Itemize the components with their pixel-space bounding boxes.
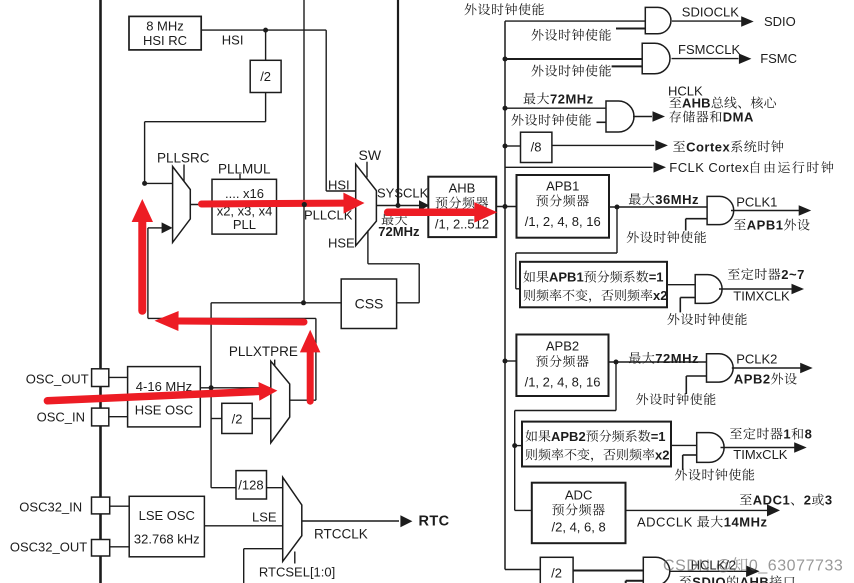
arrow into AHB prescaler [419,200,430,211]
svg-text:/2: /2 [232,412,243,427]
label peripheral clock enable 8 [675,469,687,481]
wire enable into SDIO gate [616,28,645,30]
node FSMC branch [503,57,508,62]
wire FCLK [505,166,653,168]
AND gate TIMxCLK [697,433,724,463]
arrow to FSMC [739,54,752,65]
label to ADC123 [740,494,752,505]
svg-text:LSE: LSE [252,510,277,525]
svg-text:x2: x2 [655,447,669,462]
arrow to SDIO [741,16,754,27]
svg-text:RTC: RTC [419,514,450,530]
svg-text:OSC32_OUT: OSC32_OUT [10,540,87,555]
AND gate PCLK2 [707,354,734,382]
wire enable into PCLK2 gate [686,375,706,377]
svg-text:SYSCLK: SYSCLK [377,186,429,201]
svg-text:.... x16: .... x16 [225,186,264,201]
tick PLLMUL label [239,174,241,179]
wire PLLXTPRE out to PLLSRC [290,399,316,401]
label peripheral clock enable 1 [465,3,477,15]
wire HSI from HSI RC [201,29,326,31]
label peripheral clock enable 2 [532,29,544,41]
mux PLLSRC [173,167,191,243]
node APB2 out junction [614,360,619,365]
svg-text:LSE OSC: LSE OSC [139,508,195,523]
node MCO tap on PLLCLK wire [302,202,307,207]
svg-text:/2: /2 [551,566,562,581]
svg-text:Cortex: Cortex [686,139,730,154]
svg-text:HSI: HSI [328,178,350,193]
AND gate TIMXCLK [695,275,722,304]
arrow Cortex system timer [655,140,668,151]
label max 72MHz APB2 [629,352,641,364]
wire enable into PCLK1 gate [686,218,707,220]
mux RTCSEL [283,477,302,561]
svg-text:APB1: APB1 [549,270,584,285]
box if APB2 prescaler =1 [522,422,671,467]
svg-text:32.768 kHz: 32.768 kHz [134,532,200,547]
red arrow SYSCLK to AHB [388,209,475,217]
svg-text:TIMXCLK: TIMXCLK [733,289,790,304]
svg-text:PLL: PLL [233,217,256,232]
red arrow HSE to PLLXTPRE [47,391,259,400]
node SYSCLK junction [396,203,401,208]
label to SDIO AHB interface [679,576,691,583]
wire OSC32_OUT to LSE OSC [110,546,130,548]
arrow PCLK2 [800,363,813,373]
arrow to RTC [400,515,412,527]
svg-text:APB1: APB1 [747,218,784,233]
svg-text:OSC32_IN: OSC32_IN [19,500,82,515]
tick SW label [366,162,368,178]
node HSE junction [209,385,214,390]
tick PLLSRC label [183,165,185,182]
wire HSE vertical [210,303,212,488]
svg-text:1: 1 [783,427,791,442]
wire PLLCLK to SW mux [277,203,356,205]
label peripheral clock enable 6 [667,313,679,325]
svg-text:FSMC: FSMC [760,51,797,66]
svg-text:x2: x2 [653,288,667,303]
label max 72MHz HCLK [524,93,536,105]
wire into ADC prescaler [515,509,532,511]
box 8 MHz HSI RC [129,16,201,50]
wire /128 to RTCSEL [267,487,283,489]
wire PLLSRC out [190,204,212,206]
label max 36MHz [629,193,641,205]
wire to /8 [505,145,521,147]
wire AHB out [496,206,516,208]
node /8 branch [503,144,508,149]
wire into PLLSRC input 0 [145,182,173,184]
svg-text:AHB: AHB [682,96,711,111]
node HSI junction [263,28,268,33]
wire into APB2 [505,360,516,362]
wire /2 to SDIO AHB gate [573,570,643,572]
node HCLK junction [503,204,508,209]
wire to TIMxCLK gate [671,444,697,446]
wire /2 to PLLXTPRE [252,418,271,420]
wire HSI down to SW mux [325,30,327,191]
wire OSC_IN to HSE OSC [109,416,128,418]
svg-text:/2: /2 [260,69,271,84]
node HCLK gate branch [503,106,508,111]
wire /8 to Cortex system timer [552,144,654,146]
tick PLLXTPRE label [274,360,276,370]
svg-text:RTCSEL[1:0]: RTCSEL[1:0] [259,565,335,580]
box APB2 prescaler [516,335,608,397]
svg-text:RTCCLK: RTCCLK [314,527,368,542]
wire PCLK1 out [731,210,802,212]
divider /2 (SDIO AHB) [540,557,573,583]
wire HCLK to FSMC gate [505,58,642,60]
svg-text:AHB: AHB [449,181,476,196]
wire HCLK to SDIO gate [505,20,645,22]
wire SDIO AHB out [670,570,748,572]
svg-text:8: 8 [805,427,813,442]
svg-text:SW: SW [359,147,382,163]
svg-text:SDIO: SDIO [692,575,726,583]
wire ADCCLK out [626,509,771,511]
divider /128 [236,471,267,499]
label to timers 1 and 8 [730,428,742,439]
svg-text:PCLK1: PCLK1 [736,195,777,210]
svg-text:PCLK2: PCLK2 [736,352,777,367]
box CSS [341,279,396,329]
wire enable into TIMxCLK gate [683,454,697,456]
svg-text:APB2: APB2 [546,339,579,354]
wire SYSCLK to top [397,0,399,206]
svg-text:APB1: APB1 [546,179,579,194]
svg-text:14MHz: 14MHz [724,515,768,530]
svg-text:FCLK Cortex: FCLK Cortex [669,160,749,175]
wire CSS to SW mux HSE input [397,302,420,304]
divider /2 (HSI) [250,60,281,92]
svg-text:CSDN @: CSDN @ [663,558,732,575]
wire HSE to /2 divider [211,418,222,420]
svg-text:72MHz: 72MHz [655,351,699,366]
wire FSMCCLK out [672,58,739,60]
svg-text:HSE OSC: HSE OSC [135,403,194,418]
svg-text:PLLXTPRE: PLLXTPRE [229,344,298,359]
watermark CSDN [663,557,843,574]
svg-text:APB2: APB2 [551,429,586,444]
wire LSI from bottom to RTCSEL [243,549,245,583]
wire OSC_OUT to HSE OSC [109,376,128,378]
node ADC branch junction [512,443,517,448]
svg-text:2~7: 2~7 [781,267,805,282]
svg-text:36MHz: 36MHz [655,192,699,207]
svg-text:ADC: ADC [565,488,592,503]
box PLL multiplier [212,179,277,234]
arrow TIMXCLK [792,284,805,294]
wire HCLK out [633,116,652,118]
mux SW [356,164,377,246]
arrow HCLK [653,111,666,122]
svg-text:SDIOCLK: SDIOCLK [682,5,739,20]
AND gate HCLK [606,101,634,132]
svg-text:HSI: HSI [222,32,244,47]
svg-text:0_63077733: 0_63077733 [749,558,843,575]
wire APB1 out [609,206,707,208]
wire TIMXCLK out [719,288,794,290]
wire enable into SDIO AHB gate [626,580,644,582]
box ADC prescaler [532,483,626,544]
AND gate PCLK1 [707,196,734,224]
arrow PCLK1 [799,205,812,216]
node PLLSRC input junction [142,181,147,186]
red arrow PLLXTPRE up [307,352,314,401]
wire HSE/128 branch [211,487,236,489]
label to timers 2~7 [728,268,740,279]
wire LSE to RTCSEL mux [204,525,282,527]
tick RTCSEL label [294,552,296,564]
wire TIMxCLK out [721,447,796,449]
wire APB2 out [609,361,707,363]
arrow ADCCLK [767,504,780,516]
svg-text:DMA: DMA [723,110,754,125]
wire enable into TIMXCLK gate [680,297,695,299]
label max 72MHz at SYSCLK [382,214,394,226]
wire HCLK to bottom /2 [505,569,540,571]
svg-text:APB2: APB2 [734,372,771,387]
arrow SDIO AHB [746,566,760,578]
svg-text:TIMxCLK: TIMxCLK [733,447,788,462]
divider /2 (HSE) [222,403,252,433]
wire SYSCLK out of SW [376,205,419,207]
svg-text:AHB: AHB [740,575,770,583]
svg-text:FSMCCLK: FSMCCLK [678,42,740,57]
wire HSE to CSS [211,302,341,304]
label to Cortex system clock [673,141,685,152]
svg-text:HSI RC: HSI RC [143,33,187,48]
svg-text:ADC1: ADC1 [753,493,790,508]
svg-text:OSC_OUT: OSC_OUT [26,371,89,386]
svg-text:72MHz: 72MHz [550,91,594,106]
arrow into PLLSRC input 1 [162,222,173,233]
svg-text:/8: /8 [531,140,542,155]
svg-text:SDIO: SDIO [764,14,796,29]
label peripheral clock enable 7 [636,393,648,405]
wire PCLK2 out [732,367,802,369]
mux PLLXTPRE [271,361,290,443]
node HSE/MCO junction [301,300,306,305]
svg-text:8 MHz: 8 MHz [146,19,184,34]
svg-text:=1: =1 [651,429,666,444]
wire SDIOCLK out [672,20,742,22]
wire HSI to /2 divider [265,30,267,60]
node APB2 branch [503,359,508,364]
AND gate SDIO [645,7,671,33]
node APB1 out junction [615,205,620,210]
chip boundary line [99,0,102,583]
svg-text:/128: /128 [238,478,263,493]
svg-text:/1, 2, 4, 8, 16: /1, 2, 4, 8, 16 [525,214,601,229]
box AHB prescaler [428,177,496,237]
wire HSI/2 to PLLSRC mux [265,93,267,122]
label peripheral clock enable 3 [532,65,544,77]
svg-text:OSC_IN: OSC_IN [37,409,85,424]
svg-text:72MHz: 72MHz [378,224,420,239]
box HSE OSC 4-16 MHz [128,367,201,427]
svg-text:=1: =1 [649,270,664,285]
svg-text:PLLSRC: PLLSRC [157,151,210,166]
bus HCLK vertical [504,21,506,569]
box APB1 prescaler [517,175,610,238]
box LSE OSC [129,496,204,557]
wire HSE to MCO (top) [303,0,305,303]
svg-text:ADCCLK: ADCCLK [637,515,693,530]
label peripheral clock enable 4 [512,114,524,126]
AND gate FSMC [642,43,670,74]
wire APB1 to TIM box [616,207,618,253]
svg-text:HSE: HSE [328,235,355,250]
wire HSE out [200,387,270,389]
red arrow up to PLLSRC [138,222,146,311]
wire to TIMXCLK gate [667,284,695,286]
svg-text:PLLMUL: PLLMUL [218,161,271,176]
divider /8 [521,132,552,162]
svg-text:2: 2 [804,493,812,508]
label peripheral clock enable 5 [627,231,639,243]
svg-text:CSS: CSS [355,296,384,312]
svg-text:3: 3 [825,493,833,508]
arrow FCLK [654,162,667,173]
AND gate SDIO AHB [643,557,670,583]
svg-text:/1, 2, 4, 8, 16: /1, 2, 4, 8, 16 [525,375,601,390]
wire enable into HCLK gate [597,121,607,123]
red arrow PLLXTPRE out leftwards [179,321,305,322]
label to APB1 peripherals [734,219,746,230]
wire APB2 to TIM box and ADC [615,362,617,411]
arrow TIMxCLK [794,442,807,453]
red arrow PLL to SW [202,200,344,208]
wire OSC32_IN to LSE OSC [110,505,130,507]
wire HCLK to gate [505,107,606,109]
wire enable into FSMC gate [612,65,643,67]
wire RTCCLK [302,520,399,522]
box if APB1 prescaler =1 [520,262,667,308]
svg-text:/2, 4, 6, 8: /2, 4, 6, 8 [552,520,606,535]
